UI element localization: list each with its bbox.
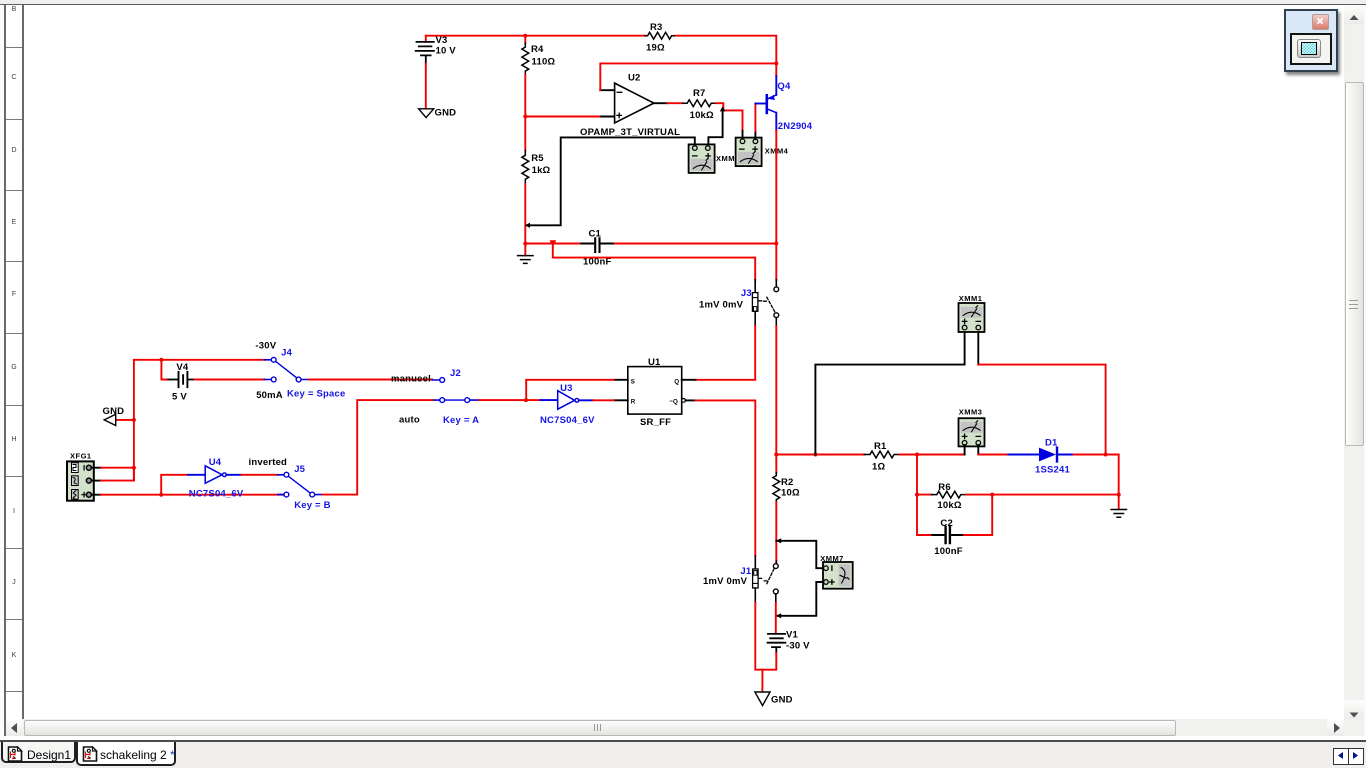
svg-text:U3: U3 <box>560 383 573 394</box>
switch J3 <box>699 280 779 327</box>
svg-text:Q4: Q4 <box>777 81 791 92</box>
tab Design1 <box>1 742 76 763</box>
ground GND below V3 <box>419 108 457 119</box>
svg-text:Key = B: Key = B <box>294 500 331 511</box>
node junction main <box>774 453 778 457</box>
wire R7 to XMM4 <box>716 103 743 139</box>
svg-text:19Ω: 19Ω <box>646 42 665 53</box>
multimeter XMM4 <box>736 138 789 167</box>
node junction U4 branch <box>159 493 163 497</box>
wire auto rail from J5 <box>357 400 432 495</box>
svg-text:R7: R7 <box>693 88 706 99</box>
node junction R7-XMM5 tap <box>720 106 726 111</box>
node junction J2 common <box>524 398 528 402</box>
function generator XFG1 <box>67 452 94 501</box>
battery V1 <box>768 630 811 653</box>
wire U3 output to R input <box>579 399 614 401</box>
wire XMM1 plus lead <box>815 332 964 454</box>
switch J2 <box>432 368 479 426</box>
svg-text:R2: R2 <box>781 477 794 488</box>
resistor R1 <box>864 441 899 473</box>
inverter U4 <box>189 457 244 500</box>
node junction right corner <box>1117 493 1121 497</box>
battery V3 <box>416 35 457 64</box>
svg-text:GND: GND <box>771 694 793 705</box>
svg-text:1kΩ: 1kΩ <box>532 165 551 176</box>
ground earth right <box>1111 495 1126 518</box>
svg-text:1SS241: 1SS241 <box>1035 464 1071 475</box>
ground net arrow GND left <box>103 406 134 426</box>
node junction R6 left <box>915 493 919 497</box>
op-amp U2 <box>580 73 680 138</box>
resistor R7 <box>683 88 716 121</box>
switch J1 <box>703 556 778 603</box>
node junction second rail <box>550 240 557 247</box>
wire top rail V3 to R3 to right corner <box>426 36 777 76</box>
node junction common rail at R5 bottom <box>525 223 530 228</box>
svg-text:U4: U4 <box>209 457 222 468</box>
svg-text:V4: V4 <box>176 362 189 373</box>
wire R5 to C1 rail <box>524 184 526 243</box>
svg-text:V1: V1 <box>786 630 799 641</box>
wire S input from J2 node <box>526 380 614 400</box>
wire V3 to GND <box>425 64 427 109</box>
node junction C1 rail right <box>774 242 778 246</box>
svg-text:100nF: 100nF <box>934 546 962 557</box>
svg-text:2N2904: 2N2904 <box>778 121 813 132</box>
wire J3 bottom to main node <box>775 326 777 454</box>
svg-text:XMM3: XMM3 <box>959 408 983 417</box>
diode D1 <box>1009 438 1074 476</box>
wire XFG1 terminal 1 <box>91 467 133 469</box>
top-right floating widget <box>1284 9 1338 72</box>
svg-text:1mV 0mV: 1mV 0mV <box>703 576 748 587</box>
corner area <box>1344 719 1364 736</box>
wire J1 stick down to bottom rail <box>755 603 762 670</box>
multimeter XMM7 <box>820 554 853 589</box>
wire XMM3 right lead <box>978 445 1008 454</box>
node junction V4 left <box>159 358 163 362</box>
svg-text:R3: R3 <box>650 22 663 33</box>
wire R4 node down to R5 <box>524 117 526 151</box>
wire C2 to R6 rail <box>964 495 992 535</box>
node junction at R4 top <box>523 34 527 38</box>
resistor R6 <box>917 482 966 511</box>
ground GND bottom <box>755 692 793 706</box>
svg-text:OPAMP_3T_VIRTUAL: OPAMP_3T_VIRTUAL <box>580 127 680 138</box>
ground earth below C1 rail <box>518 244 533 264</box>
svg-text:-30V: -30V <box>255 340 276 351</box>
svg-text:GND: GND <box>435 108 457 119</box>
tab bar <box>0 742 1366 768</box>
wire XMM7 top lead <box>776 541 823 568</box>
svg-text:R6: R6 <box>938 482 951 493</box>
svg-text:J5: J5 <box>294 464 305 475</box>
svg-text:10Ω: 10Ω <box>781 487 800 498</box>
flip-flop U1 <box>628 357 686 428</box>
wire J3 stick to U1 q output <box>695 326 755 380</box>
wire J1 blade side down to V1 <box>775 603 777 632</box>
wire ~Q to J1 stick <box>695 400 755 556</box>
wire XFG1 terminal 2 <box>91 468 133 481</box>
svg-text:manueel: manueel <box>391 373 431 384</box>
wire D1 to right corner <box>1074 455 1119 495</box>
svg-text:Key = Space: Key = Space <box>287 389 345 400</box>
svg-text:10 V: 10 V <box>436 46 457 57</box>
node junction XMM7 bottom tap <box>776 613 781 618</box>
node junction GND tap <box>132 418 136 422</box>
wire J2 common to node <box>479 399 526 401</box>
wire top rail left (-30V) <box>134 359 265 361</box>
wire J5 common to auto rail <box>322 494 357 496</box>
wire plus-input to op-amp <box>525 116 614 118</box>
wire stem to GND <box>761 670 763 692</box>
wire R6 right to ground corner <box>966 494 1119 496</box>
switch J4 <box>255 340 345 401</box>
svg-text:auto: auto <box>399 414 420 425</box>
svg-text:V3: V3 <box>436 35 448 46</box>
wire XMM1 minus lead <box>978 332 1105 454</box>
wire minus input lead <box>600 89 614 91</box>
svg-text:R: R <box>631 399 636 406</box>
resistor R4 <box>522 36 556 75</box>
svg-text:XMM7: XMM7 <box>820 554 844 563</box>
svg-text:110Ω: 110Ω <box>532 57 556 68</box>
svg-text:C2: C2 <box>940 518 953 529</box>
wire op-amp common rail to XMM5 left terminal <box>528 137 695 225</box>
svg-text:1Ω: 1Ω <box>872 462 885 473</box>
svg-text:NC7S04_6V: NC7S04_6V <box>540 415 595 426</box>
inverter U3 <box>540 383 595 426</box>
wire XMM4 right terminal up to Q4 base <box>754 104 756 140</box>
node junction plus-input <box>523 115 527 119</box>
wire op-amp output <box>654 102 683 104</box>
left frame line <box>4 5 6 736</box>
svg-text:R4: R4 <box>531 44 544 55</box>
node junction XMM1 tap <box>813 453 817 457</box>
wire R4 to plus-input node <box>524 75 526 117</box>
svg-text:1mV 0mV: 1mV 0mV <box>699 300 744 311</box>
svg-text:50mA: 50mA <box>256 390 283 401</box>
ruler right line <box>22 5 24 719</box>
svg-text:R1: R1 <box>874 441 887 452</box>
svg-text:XFG1: XFG1 <box>70 452 92 461</box>
capacitor C2 <box>917 518 964 557</box>
resistor R2 <box>773 455 800 503</box>
svg-text:J2: J2 <box>450 368 461 379</box>
wire main rail to R1 <box>776 454 864 456</box>
wire tap down to XMM5 right terminal <box>708 110 722 145</box>
switch J5 <box>278 464 331 511</box>
svg-text:GND: GND <box>103 406 125 417</box>
wire R2 down to J1 section <box>775 503 777 564</box>
wire second rail to J3 stick <box>553 244 755 280</box>
node junction XFG1 t1 <box>132 466 136 470</box>
wire feedback from minus input up and right to collector rail <box>600 63 776 90</box>
bottom separator line <box>0 740 1366 742</box>
svg-text:C1: C1 <box>589 229 602 240</box>
wire C1 rail <box>525 243 776 245</box>
left outer margin <box>0 5 4 736</box>
wire R1 to XMM3 <box>900 454 965 456</box>
svg-text:Q: Q <box>674 378 679 385</box>
wire J4 common to J2 manueel terminal <box>309 373 432 384</box>
transistor Q4 <box>755 76 812 132</box>
svg-text:~Q: ~Q <box>669 399 678 406</box>
svg-text:U1: U1 <box>648 357 661 368</box>
svg-text:Key = A: Key = A <box>443 415 479 426</box>
node junction XMM7 top tap <box>776 538 781 543</box>
ruler column <box>6 5 22 719</box>
wire Q4 collector down to C1 rail and J3 <box>775 130 777 279</box>
node junction C1 rail left <box>523 242 527 246</box>
multimeter XMM3 <box>959 408 985 447</box>
resistor R3 <box>645 22 674 54</box>
pin R lead <box>614 399 628 401</box>
capacitor C1 <box>583 229 611 268</box>
resistor R5 <box>522 151 551 185</box>
horizontal scrollbar <box>6 719 1344 736</box>
wire V4 to J4 lower terminal <box>195 379 265 381</box>
svg-text:J4: J4 <box>281 348 292 359</box>
vertical scrollbar <box>1344 5 1364 719</box>
node junction XMM1 return <box>1104 453 1108 457</box>
wire left rail down from -30V rail <box>133 360 135 481</box>
svg-text:XMM1: XMM1 <box>959 294 983 303</box>
svg-text:J3: J3 <box>741 288 752 299</box>
wire XMM7 bottom lead <box>776 582 823 616</box>
svg-text:S: S <box>631 378 635 385</box>
wire U4 output to J5 inverted terminal <box>226 457 287 475</box>
wire V4 left lead up <box>161 360 168 380</box>
svg-text:SR_FF: SR_FF <box>640 417 671 428</box>
wire branch up to U4 input <box>161 475 205 495</box>
tab nav buttons bottom right <box>1333 748 1349 765</box>
battery V4 <box>168 362 194 402</box>
svg-text:10kΩ: 10kΩ <box>937 500 961 511</box>
wire XMM3 left lead <box>964 445 966 454</box>
svg-text:NC7S04_6V: NC7S04_6V <box>189 488 244 499</box>
pin S lead <box>614 379 628 381</box>
wire V1 to bottom rail <box>762 653 776 670</box>
svg-text:D1: D1 <box>1045 438 1058 449</box>
svg-text:inverted: inverted <box>249 457 288 468</box>
tab schakeling 2 * (active) <box>76 742 176 766</box>
svg-text:10kΩ: 10kΩ <box>690 110 714 121</box>
svg-text:-30 V: -30 V <box>786 640 810 651</box>
right outer margin <box>1364 5 1366 736</box>
pin Q lead <box>682 379 696 381</box>
node junction C2 return <box>990 493 994 497</box>
svg-text:R5: R5 <box>531 153 544 164</box>
multimeter XMM1 <box>959 294 985 332</box>
wire node to U3 input <box>526 399 558 401</box>
svg-text:5 V: 5 V <box>172 392 187 403</box>
node junction feedback-rail <box>774 61 778 65</box>
pin ~Q lead <box>686 399 696 401</box>
multimeter XMM5 <box>689 144 740 173</box>
node junction R6 branch top <box>915 453 919 457</box>
svg-text:U2: U2 <box>628 73 641 84</box>
top gray strip <box>0 0 1366 5</box>
wire XFG1 terminal 3 to J5 <box>91 494 284 496</box>
wire R6 branch vertical <box>916 455 918 536</box>
